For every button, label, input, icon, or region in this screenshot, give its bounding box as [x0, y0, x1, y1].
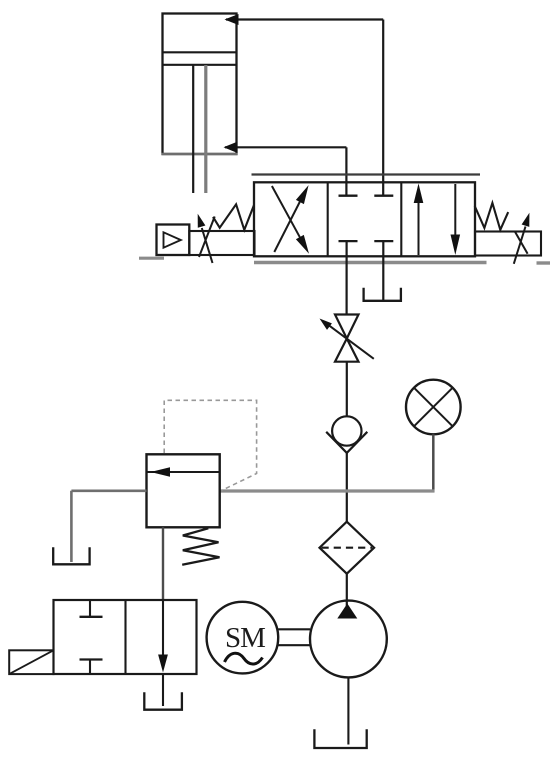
unloading valve V2 body	[54, 600, 197, 674]
spring right	[475, 203, 509, 230]
tank T4	[144, 692, 182, 710]
throttle valve F1 adjustment arrow	[320, 319, 374, 359]
valve V1 right cell up arrow	[414, 184, 424, 256]
tank T1 below valve	[364, 288, 401, 301]
svg-text:SM: SM	[225, 622, 265, 654]
wire throttle to check valve	[346, 362, 348, 417]
shaft coupling motor-pump	[278, 629, 310, 645]
proportional solenoid right arrow	[514, 213, 530, 264]
cylinder C1 piston rod	[193, 65, 206, 193]
rail segment right	[537, 261, 550, 264]
pilot line dashed	[164, 400, 256, 490]
check valve CV1	[326, 416, 367, 453]
unloading valve V2 blocked ports	[80, 600, 103, 674]
tank T2 below pump	[314, 729, 366, 748]
wire valve port B down to tank T1	[382, 241, 384, 300]
wire check valve to filter (through junction)	[346, 453, 348, 522]
proportional solenoid left arrow	[198, 214, 213, 263]
wire relief valve bottom to unloading valve	[162, 527, 164, 601]
rail segment left	[139, 257, 164, 260]
valve V1 middle cell blocked port bars	[339, 196, 394, 241]
filter FL1	[320, 522, 375, 574]
valve V1 left cell crossed arrow 1	[274, 185, 308, 252]
pilot actuator box	[157, 225, 190, 256]
wire cylinder rod-side port to valve port A	[224, 142, 347, 195]
solenoid V2	[9, 650, 53, 674]
wire main pressure line horizontal	[220, 489, 435, 492]
throttle valve F1	[335, 315, 359, 362]
wire valve port A down to throttle	[346, 241, 348, 314]
proportional solenoid right box	[475, 232, 541, 256]
valve V1 right cell down arrow	[451, 184, 461, 255]
wire unloading valve to tank T4	[162, 674, 164, 706]
cylinder C1 body	[162, 14, 238, 155]
wire gauge stem	[432, 434, 435, 492]
wire relief valve to left tank	[71, 491, 146, 562]
valve V1 bottom rail	[254, 261, 487, 265]
spring relief valve	[182, 528, 219, 565]
valve V1 top rail	[252, 173, 481, 175]
proportional solenoid right slash	[515, 232, 528, 254]
wire cylinder top port to valve port B	[225, 14, 384, 195]
proportional solenoid left slash	[199, 217, 215, 258]
wire filter to pump	[346, 574, 348, 606]
motor M1	[207, 602, 279, 674]
valve V1 body	[254, 182, 475, 256]
pump P1	[310, 601, 387, 678]
pressure gauge G1	[406, 380, 461, 435]
tank T3 left	[53, 547, 89, 564]
unloading valve V2 flow arrow	[158, 600, 168, 673]
cylinder C1 piston	[163, 52, 236, 65]
relief valve RV1 body	[147, 454, 220, 527]
spring left	[213, 204, 254, 230]
valve V1 left cell crossed arrow 2	[272, 186, 309, 254]
wire pump suction	[347, 677, 349, 744]
proportional solenoid left box	[189, 231, 254, 255]
